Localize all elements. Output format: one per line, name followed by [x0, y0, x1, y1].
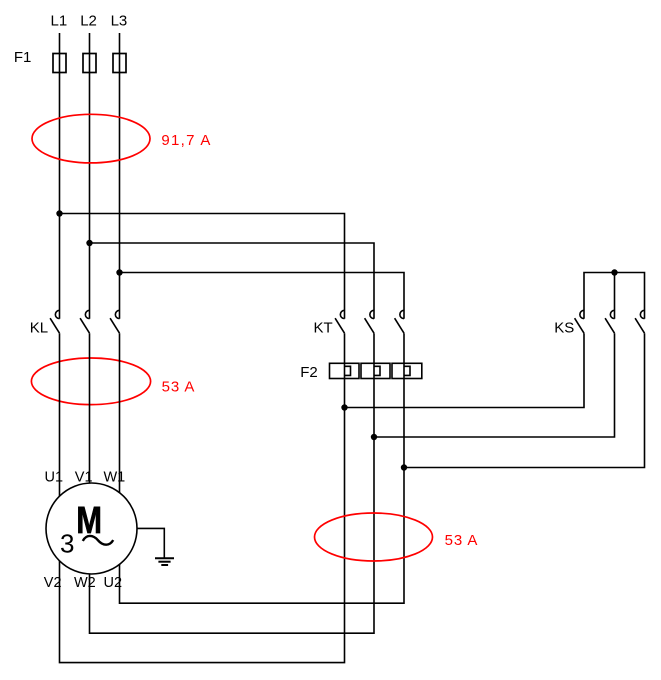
svg-text:U2: U2 — [104, 575, 123, 591]
current loop 53 A (KT branch) — [315, 513, 433, 561]
contact KS pole 2 — [605, 310, 614, 333]
wire KL2 to motor V1 — [89, 333, 91, 483]
svg-text:F1: F1 — [14, 49, 32, 66]
overload relay F2 element 3 box — [392, 363, 422, 378]
wire L2 fuse to contact KL2 — [89, 73, 91, 319]
junction node U2/KS3 — [401, 464, 407, 470]
svg-text:L2: L2 — [80, 13, 97, 30]
svg-text:KS: KS — [554, 319, 574, 336]
svg-text:KL: KL — [30, 319, 48, 336]
contact KT pole 2 — [365, 310, 374, 333]
svg-text:L3: L3 — [111, 13, 128, 30]
contact KL pole 1 — [50, 310, 59, 333]
wire motor to ground — [137, 528, 164, 558]
overload relay F2 element 2 box — [361, 363, 390, 378]
overload relay F2 element 1 heater — [345, 366, 351, 375]
fuse F1 pole 2 — [83, 54, 96, 73]
overload relay F2 element 2 heater — [374, 366, 380, 375]
junction node L2/KT — [86, 240, 92, 246]
svg-text:L1: L1 — [51, 13, 68, 30]
overload relay F2 element 3 heater — [404, 366, 410, 375]
wire KT1 through F2 to motor V2 — [60, 333, 345, 662]
junction star point — [611, 269, 617, 275]
wire star bridge (KS common) — [584, 273, 645, 319]
wire L3 fuse to contact KL3 — [119, 73, 121, 319]
svg-text:F2: F2 — [300, 364, 318, 381]
contact KT pole 3 — [395, 310, 404, 333]
wire KL3 to motor W1 — [119, 333, 121, 493]
junction node V2/KS1 — [341, 404, 347, 410]
fuse F1 pole 3 — [113, 54, 126, 73]
motor M circle — [46, 483, 137, 574]
wire KL1 to motor U1 — [59, 333, 61, 496]
junction node W2/KS2 — [371, 434, 377, 440]
fuse F1 pole 1 — [53, 54, 66, 73]
contact KT pole 1 — [335, 310, 344, 333]
svg-text:V2: V2 — [44, 575, 62, 591]
svg-text:W2: W2 — [74, 575, 96, 591]
wire L2 to fuse — [89, 33, 91, 54]
wire KT3 through F2 to motor U2 — [120, 333, 405, 603]
svg-text:91,7 A: 91,7 A — [161, 132, 211, 149]
contact KL pole 3 — [110, 310, 119, 333]
contact KS pole 3 — [635, 310, 644, 333]
wire junction to contact KS1 — [345, 333, 585, 407]
svg-text:V1: V1 — [75, 469, 93, 485]
current loop 53 A (KL branch) — [31, 358, 150, 405]
wire L1 to fuse — [59, 33, 61, 54]
ground symbol — [155, 558, 174, 565]
wire star bridge middle stub — [614, 273, 616, 319]
svg-text:KT: KT — [314, 319, 333, 336]
junction node L3/KT — [116, 269, 122, 275]
wire L1 junction to contact KT1 — [60, 214, 345, 319]
svg-text:W1: W1 — [104, 469, 126, 485]
svg-text:53 A: 53 A — [445, 532, 479, 549]
wire L3 junction to contact KT3 — [120, 273, 405, 319]
svg-text:53 A: 53 A — [162, 378, 196, 395]
contact KL pole 2 — [80, 310, 89, 333]
wire L2 junction to contact KT2 — [90, 243, 375, 319]
junction node L1/KT — [56, 210, 62, 216]
motor AC tilde — [83, 536, 113, 545]
contact KS pole 1 — [575, 310, 584, 333]
wire L1 fuse to contact KL1 — [59, 73, 61, 319]
current loop 91,7 A — [32, 114, 150, 163]
wire junction to contact KS3 — [404, 333, 645, 467]
wire L3 to fuse — [119, 33, 121, 54]
overload relay F2 element 1 box — [330, 363, 360, 378]
svg-text:U1: U1 — [45, 469, 64, 485]
svg-text:3: 3 — [60, 529, 74, 559]
wire KT2 through F2 to motor W2 — [90, 333, 375, 633]
wire junction to contact KS2 — [374, 333, 615, 437]
